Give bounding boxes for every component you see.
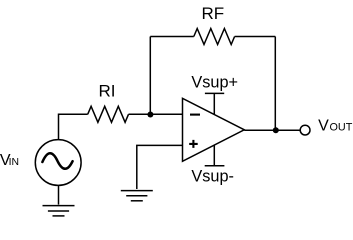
svg-text:Vsup-: Vsup- [191,167,234,185]
pin Vsup- [205,145,225,166]
op-amp minus symbol [190,114,200,116]
wire feedback down to output [274,37,276,131]
wire junction up to feedback [149,37,151,115]
ground at source [43,206,75,216]
wire feedback right segment [235,36,276,38]
svg-text:IN: IN [9,157,19,168]
wire source-top to RI [59,114,88,139]
op-amp U1 [183,98,245,161]
node junction at inverting input [147,112,153,118]
ground at plus input [121,191,153,201]
label VOUT [318,118,353,135]
node junction at output [273,127,279,133]
svg-text:OUT: OUT [330,122,353,134]
wire op-amp output [244,129,300,131]
svg-text:V: V [318,118,329,135]
output terminal circle [300,125,310,135]
wire feedback left segment [150,36,194,38]
voltage source V1 (sine source) [35,140,81,186]
wire source-bottom to ground [58,185,60,204]
resistor RF [194,29,235,45]
op-amp plus symbol [189,140,198,148]
label VIN [0,152,19,169]
svg-text:RI: RI [99,81,116,100]
pin Vsup+ [205,93,224,114]
svg-text:Vsup+: Vsup+ [191,73,238,91]
wire plus input to ground [137,145,183,189]
resistor RI [88,106,129,122]
svg-text:RF: RF [202,4,225,23]
wire RI to inverting input [129,113,183,115]
